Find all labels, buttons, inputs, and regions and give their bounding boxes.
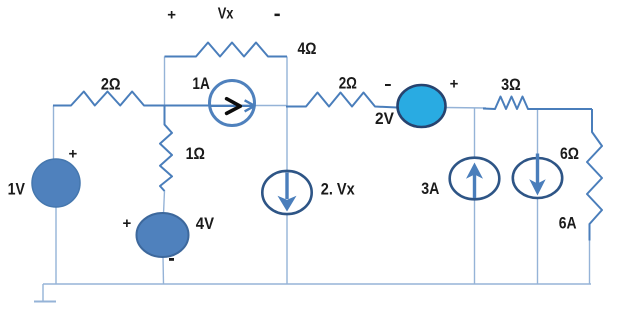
resistor 2ohm right (286, 93, 397, 108)
svg-text:4Ω: 4Ω (298, 40, 317, 58)
svg-text:+: + (167, 7, 176, 24)
current source 6A (down arrow) (513, 154, 562, 199)
svg-text:1A: 1A (192, 75, 210, 93)
voltage source 2V (398, 85, 446, 127)
wire 4ohm right vertical + 2.Vx branch to rail (286, 57, 288, 285)
resistor 6ohm vertical (587, 109, 602, 241)
wire 2V right to 3 ohm (446, 107, 487, 110)
wire 1 ohm to 4V source (164, 191, 165, 215)
label - (Vx polarity) (275, 14, 280, 17)
svg-text:6Ω: 6Ω (560, 145, 579, 163)
svg-text:Vx: Vx (218, 5, 234, 22)
svg-text:3Ω: 3Ω (501, 76, 521, 94)
wire 6A source branch vertical (537, 109, 539, 284)
svg-text:+: + (123, 215, 132, 232)
wire 1V bottom to ground rail (55, 205, 57, 284)
wire 4V source to rail (162, 257, 165, 285)
svg-text:2V: 2V (375, 110, 394, 128)
label - (2V polarity) (385, 84, 391, 86)
voltage source 4V (137, 213, 189, 257)
svg-text:2Ω: 2Ω (339, 75, 357, 93)
wire 3A branch vertical (474, 108, 476, 284)
svg-text:+: + (69, 145, 78, 162)
svg-text:6A: 6A (559, 215, 577, 233)
wire node A vertical (top of 1 ohm) (164, 57, 166, 106)
wire bottom ground rail (43, 283, 591, 285)
svg-text:4V: 4V (196, 215, 214, 233)
svg-text:3A: 3A (421, 180, 439, 198)
resistor 3ohm (483, 97, 592, 110)
current source 1A (210, 81, 255, 126)
resistor 1ohm vertical (160, 106, 172, 192)
svg-text:+: + (450, 76, 459, 93)
resistor 4ohm (165, 43, 288, 57)
resistor 2ohm left (53, 92, 211, 106)
dependent current source 2.Vx (262, 171, 311, 214)
voltage source 1V (32, 159, 80, 207)
svg-text:1Ω: 1Ω (186, 145, 205, 163)
ground (34, 284, 56, 302)
wire bus right of 1A source (253, 105, 287, 107)
wire left vertical (1V branch top) (53, 106, 55, 162)
label - (4V polarity) (169, 258, 174, 261)
svg-text:2. Vx: 2. Vx (321, 180, 355, 198)
current source 3A (450, 158, 500, 200)
svg-text:2Ω: 2Ω (101, 76, 121, 94)
svg-text:1V: 1V (8, 180, 25, 198)
wire 6 ohm bottom lead (589, 240, 591, 284)
